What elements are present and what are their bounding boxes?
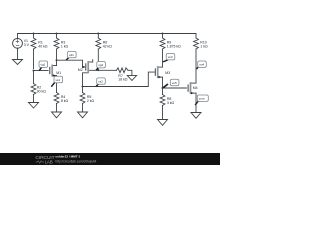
svg-text:18 kΩ: 18 kΩ — [118, 78, 128, 82]
svg-text:vg2: vg2 — [98, 63, 103, 67]
svg-text:1 kΩ: 1 kΩ — [61, 44, 69, 48]
svg-text:LAB: LAB — [45, 160, 53, 165]
svg-text:vo3: vo3 — [168, 55, 173, 59]
svg-text:3 kΩ: 3 kΩ — [167, 101, 175, 105]
svg-text:M1: M1 — [56, 71, 61, 75]
svg-text:40 kΩ: 40 kΩ — [38, 44, 48, 48]
svg-text:90 kΩ: 90 kΩ — [37, 90, 47, 94]
svg-text:42 kΩ: 42 kΩ — [103, 44, 113, 48]
svg-text:vo5: vo5 — [172, 81, 177, 85]
svg-text:2 kΩ: 2 kΩ — [87, 99, 95, 103]
svg-text:vs2: vs2 — [98, 80, 103, 84]
svg-text:3 V: 3 V — [24, 43, 30, 47]
svg-text:http://circuitlab.com/c6hqw64: http://circuitlab.com/c6hqw64 — [55, 159, 96, 163]
svg-text:vs1: vs1 — [56, 78, 61, 82]
svg-text:vout: vout — [199, 97, 205, 101]
svg-text:vo4: vo4 — [199, 63, 204, 67]
svg-text:M4: M4 — [193, 86, 198, 90]
svg-text:1.875 kΩ: 1.875 kΩ — [167, 44, 181, 48]
svg-text:vd1: vd1 — [69, 53, 74, 57]
svg-text:solder12 / MMT-1: solder12 / MMT-1 — [55, 155, 80, 159]
svg-text:8 kΩ: 8 kΩ — [61, 99, 69, 103]
svg-text:1 kΩ: 1 kΩ — [200, 44, 208, 48]
svg-text:M2: M2 — [78, 68, 83, 72]
svg-text:vg1: vg1 — [41, 63, 46, 67]
svg-text:M3: M3 — [165, 71, 170, 75]
